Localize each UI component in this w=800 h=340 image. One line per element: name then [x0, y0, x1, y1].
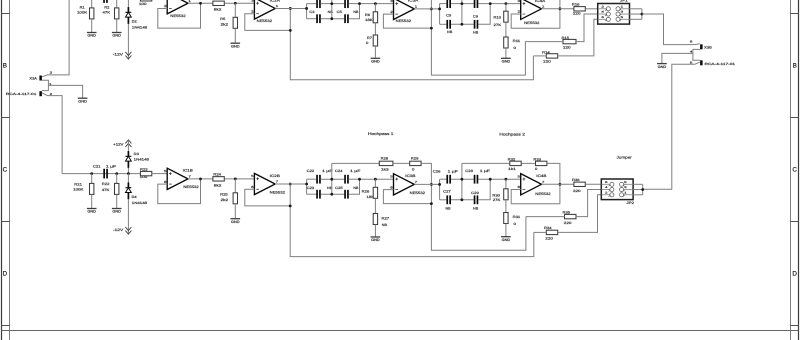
wire X3B pin4 to GND [662, 53, 693, 63]
svg-text:18K: 18K [365, 18, 374, 22]
svg-text:GND: GND [371, 60, 380, 64]
wire R31 to GND [505, 224, 507, 237]
svg-text:18K: 18K [367, 195, 376, 199]
svg-text:Jumper: Jumper [617, 155, 633, 159]
node HP2B mid bot [461, 198, 464, 201]
wire R14 to JP1 row3 [558, 19, 598, 56]
wire HP2B fb rail a [462, 162, 510, 164]
wire IC2A output [275, 7, 306, 9]
wire HP2A top rail b [451, 3, 474, 5]
wire R10 top lead [505, 4, 507, 12]
resistor R32 [510, 161, 521, 165]
ground input GND [78, 98, 88, 103]
svg-text:R27: R27 [382, 216, 390, 220]
wire HP2A mid stub [461, 0, 463, 24]
svg-text:1N4148: 1N4148 [134, 157, 150, 161]
wire R7 to GND [374, 46, 376, 58]
supply -12V A [125, 52, 131, 59]
resistor R6 [373, 12, 377, 23]
wire IC4B output [542, 183, 574, 185]
svg-text:R1: R1 [80, 5, 85, 9]
connector pin X3A-lower [39, 91, 42, 96]
wire HP1A left vertical [306, 4, 308, 19]
node IC2A out [289, 7, 292, 10]
svg-text:NB: NB [473, 206, 479, 210]
svg-text:1N4148: 1N4148 [132, 201, 148, 205]
svg-text:IC4B: IC4B [536, 174, 547, 178]
svg-text:R24: R24 [213, 173, 221, 177]
node HP2B right [489, 178, 492, 181]
resistor R31 [504, 213, 508, 224]
svg-text:27K: 27K [493, 198, 502, 202]
svg-text:GND: GND [658, 65, 667, 69]
svg-text:GND: GND [371, 238, 380, 242]
svg-text:47K: 47K [102, 188, 111, 192]
node IC1B out [199, 177, 202, 180]
wire D2 to -12V [127, 24, 129, 59]
resistor R1 [90, 8, 94, 19]
connector pin X3B-lower [700, 60, 703, 65]
resistor R30 [504, 189, 508, 200]
svg-text:NB: NB [473, 31, 479, 35]
op-amp IC3B [394, 174, 415, 195]
capacitor C9 (A bot1) [446, 20, 451, 29]
frame bottom border [2, 330, 799, 332]
wire JP2 output tie [642, 184, 644, 195]
wire R16 to JP1 [585, 8, 597, 10]
svg-text:R14: R14 [542, 51, 550, 55]
svg-text:X3A: X3A [29, 76, 38, 80]
wire R25 to GND [234, 204, 236, 218]
svg-text:100K: 100K [77, 10, 88, 14]
capacitor C8 (A top1) [446, 0, 451, 8]
node R22 node [115, 172, 118, 175]
ground R5 GND [231, 43, 241, 48]
resistor R34 [546, 230, 557, 234]
wire HP2B top rail c [478, 178, 520, 180]
svg-text:C27: C27 [443, 190, 451, 194]
resistor R28 [379, 161, 393, 165]
svg-text:GND: GND [112, 34, 121, 38]
svg-text:NE5532: NE5532 [410, 191, 425, 195]
wire HP1B top rail c [349, 178, 394, 180]
svg-text:NE5532: NE5532 [183, 185, 198, 189]
wire R21 to GND [91, 194, 93, 208]
wire R36 to JP2 [585, 183, 601, 185]
wire IC3A output [414, 8, 439, 10]
connector pin X3B-upper [700, 44, 703, 49]
wire X3A pin2 to top channel input riser [42, 0, 69, 77]
frame right inner border [790, 0, 792, 340]
wire D3 to main [127, 168, 129, 174]
svg-text:R36: R36 [572, 178, 580, 182]
node IC2A fb corner [289, 29, 292, 32]
svg-text:R6: R6 [365, 13, 370, 17]
node R10 node [505, 2, 508, 5]
node HP1A right [358, 2, 361, 5]
capacitor C29 [474, 195, 479, 204]
svg-text:100K: 100K [73, 188, 84, 192]
node HP1B mid top [330, 178, 333, 181]
wire R23 to IC1B [152, 173, 167, 175]
svg-text:C: C [3, 167, 8, 174]
svg-text:GND: GND [112, 210, 121, 214]
resistor R26 [373, 187, 377, 198]
frame row tick left [2, 221, 10, 223]
wire JP1 right stubs r3 [630, 18, 642, 20]
diode D3 [126, 151, 132, 168]
svg-text:-12V: -12V [113, 228, 124, 232]
ground R25 GND [231, 219, 241, 224]
wire R2 to GND [116, 19, 118, 32]
node R4/R5 node [234, 2, 237, 5]
ground R2 GND [112, 33, 122, 38]
wire R27 to GND [374, 225, 376, 237]
op-amp IC1B [167, 168, 188, 189]
capacitor C3 (A bot1) [316, 14, 321, 23]
svg-text:C23: C23 [307, 186, 315, 190]
wire IC3A feedback [383, 14, 431, 28]
capacitor C11 (A bot2) [474, 20, 479, 29]
wire JP2 right stubs r1 [633, 183, 643, 185]
wire JP1 right stubs r1 [630, 8, 642, 10]
wire JP2 right stubs r2 [633, 189, 643, 191]
wire IC3B output [414, 183, 439, 185]
capacitor C27 [446, 195, 451, 204]
svg-text:100: 100 [139, 2, 147, 6]
svg-text:NB: NB [447, 30, 453, 34]
node HP2A entry [438, 7, 441, 10]
svg-text:IC4A: IC4A [535, 0, 546, 3]
svg-text:GND: GND [502, 238, 511, 242]
wire IC2A out vertical / tap [290, 8, 533, 79]
svg-text:8k2: 8k2 [214, 183, 222, 187]
svg-text:220: 220 [563, 46, 571, 50]
ground X3B GND [657, 64, 667, 69]
svg-text:C9: C9 [446, 14, 451, 18]
wire R11 to GND [505, 48, 507, 58]
svg-text:D: D [3, 271, 8, 278]
wire HP2B mid riser [461, 163, 463, 199]
svg-text:R7: R7 [367, 36, 372, 40]
capacitor C28 [474, 175, 479, 184]
svg-text:R21: R21 [74, 183, 82, 187]
wire R2 top lead [116, 0, 118, 8]
frame row tick right [791, 13, 799, 15]
wire HP1A top rail b [321, 3, 344, 5]
wire R26 top lead [374, 179, 376, 187]
node IC4A out [559, 7, 562, 10]
svg-text:0: 0 [412, 168, 415, 172]
svg-text:R5: R5 [220, 17, 225, 21]
resistor R21 [90, 183, 94, 194]
wire R5 to GND [234, 28, 236, 42]
svg-text:NB: NB [446, 207, 452, 211]
wire IC3A fb/tap vertical [431, 0, 525, 75]
wire HP1B bottom rail a [307, 193, 317, 195]
wire X3B pin5 from JP2 [643, 62, 700, 189]
frame left outer border [1, 0, 3, 340]
wire IC1B output [188, 178, 213, 180]
svg-text:IC1B: IC1B [183, 168, 194, 172]
svg-text:Hochpass 1: Hochpass 1 [368, 132, 394, 136]
wire HP2B top rail b [451, 178, 474, 180]
wire X3B shield bracket [693, 49, 700, 60]
wire HP1A top rail a [307, 3, 317, 5]
svg-text:27K: 27K [494, 23, 503, 27]
wire D2 top lead [127, 0, 129, 7]
wire HP1A bottom rail a [307, 18, 317, 20]
wire HP1A bottom rail c [349, 4, 360, 19]
svg-text:C26: C26 [433, 170, 441, 174]
wire HP1B left vertical [306, 179, 308, 194]
node HP1A entry [305, 7, 308, 10]
ground R1 GND [87, 33, 97, 38]
ground R22 GND [112, 209, 122, 214]
svg-text:IC3A: IC3A [408, 0, 419, 3]
svg-text:GND: GND [87, 210, 96, 214]
svg-text:C21: C21 [93, 164, 101, 168]
jumper JP2 [601, 179, 633, 200]
svg-text:C9: C9 [473, 14, 478, 18]
svg-text:IC3B: IC3B [405, 174, 416, 178]
svg-text:0: 0 [366, 41, 369, 45]
node HP1A mid bot [330, 17, 333, 20]
node diode node B [127, 172, 130, 175]
svg-text:NE5532: NE5532 [257, 19, 272, 23]
wire HP1B fb rail a [332, 162, 380, 164]
svg-text:NE5532: NE5532 [396, 19, 411, 23]
frame row tick right [791, 325, 799, 327]
wire IC4B feedback [511, 184, 560, 204]
svg-text:0: 0 [514, 46, 517, 50]
svg-text:NB: NB [353, 10, 359, 14]
svg-text:1 µF: 1 µF [106, 164, 116, 168]
svg-text:IC2A: IC2A [270, 0, 281, 3]
wire IC4A output [542, 8, 574, 10]
svg-text:NB: NB [353, 186, 359, 190]
resistor R11 [504, 37, 508, 48]
ground R21 GND [87, 209, 97, 214]
svg-text:R23: R23 [140, 167, 148, 171]
wire JP1 to X3B pin6 [642, 14, 700, 45]
svg-text:R11: R11 [513, 39, 521, 43]
svg-text:2k2: 2k2 [221, 198, 229, 202]
wire R1 top lead [91, 0, 93, 8]
node R26 node [374, 178, 377, 181]
wire R1 to GND [91, 19, 93, 32]
resistor R10 [504, 11, 508, 22]
jumper JP1 [598, 4, 630, 25]
capacitor C26 [446, 175, 451, 184]
wire R6 top lead [374, 4, 376, 12]
wire IC1B feedback [158, 179, 201, 204]
svg-text:D2: D2 [132, 19, 137, 23]
svg-text:X3B: X3B [704, 45, 713, 49]
resistor R22 [115, 183, 119, 194]
svg-text:1k1: 1k1 [508, 167, 516, 171]
node JP1 out [641, 13, 644, 16]
wire R35 left lead [526, 216, 565, 218]
svg-text:1 µF: 1 µF [480, 169, 490, 173]
svg-text:R26: R26 [362, 189, 370, 193]
svg-text:R33: R33 [533, 158, 541, 162]
wire HP1B top rail b [321, 178, 344, 180]
ground R11 GND [501, 58, 511, 63]
svg-text:GND: GND [78, 99, 87, 103]
node IC4B out [559, 183, 562, 186]
resistor R27 [373, 214, 377, 225]
svg-text:+12V: +12V [113, 142, 124, 146]
op-amp IC3A [394, 0, 415, 19]
svg-text:RCA-4-117-01: RCA-4-117-01 [705, 62, 736, 66]
svg-text:220: 220 [573, 12, 581, 16]
op-amp IC4B [521, 174, 542, 195]
wire HP2B fb rail b [521, 162, 535, 164]
svg-text:R22: R22 [102, 182, 110, 186]
frame row tick left [2, 325, 10, 327]
wire R10 to R11 [505, 22, 507, 37]
svg-text:C: C [792, 167, 797, 174]
frame left inner border [9, 0, 11, 340]
wire HP2B top rail a [440, 178, 447, 180]
wire HP2B left vertical [439, 179, 441, 200]
wire IC2B output [275, 183, 306, 185]
svg-text:R15: R15 [562, 36, 570, 40]
wire R30 top lead [505, 179, 507, 189]
wire HP1A bottom rail b [321, 18, 344, 20]
wire R26 to R27 [374, 198, 376, 213]
svg-text:Hochpass 2: Hochpass 2 [499, 133, 525, 137]
svg-text:C29: C29 [471, 191, 479, 195]
resistor R35 [565, 214, 577, 218]
wire HP2A left vertical [439, 4, 441, 25]
svg-text:8k2: 8k2 [214, 8, 222, 12]
resistor R14 [546, 54, 557, 58]
wire +12V to D3 [127, 140, 129, 151]
svg-text:C28: C28 [465, 169, 473, 173]
svg-text:220: 220 [573, 189, 581, 193]
wire R14 left lead [533, 55, 546, 57]
resistor R3 (clipped) [140, 0, 151, 1]
wire R15 left lead [525, 41, 563, 43]
wire R21 top lead [91, 174, 93, 184]
svg-text:220: 220 [543, 60, 551, 64]
wire HP1B bottom rail c [349, 179, 360, 194]
wire HP2A top rail c [478, 3, 520, 5]
capacitor C5 (A bot2) [344, 14, 349, 23]
svg-text:R10: R10 [494, 16, 502, 20]
node IC3B out node [430, 183, 433, 186]
diode D2 [126, 7, 132, 24]
svg-text:R16: R16 [572, 3, 580, 7]
svg-text:1N4148: 1N4148 [132, 26, 148, 30]
wire HP1A mid stub [331, 0, 333, 19]
frame row tick left [2, 13, 10, 15]
svg-text:220: 220 [564, 221, 572, 225]
wire IC2B feedback [245, 189, 290, 206]
wire R4 to IC2A [224, 2, 254, 4]
node IC1A out [199, 2, 202, 5]
wire B main line [62, 173, 140, 175]
resistor R2 [115, 8, 119, 19]
wire HP2A bottom rail b [451, 23, 474, 25]
svg-text:JP2: JP2 [626, 201, 634, 205]
wire R34 to JP2 row3 [558, 195, 602, 233]
node R24/R25 node [234, 177, 237, 180]
wire IC2A feedback [245, 14, 290, 31]
node R21 node [90, 172, 93, 175]
svg-text:NE5532: NE5532 [270, 191, 285, 195]
ground R7 GND [371, 58, 381, 63]
node HP2A mid bot [461, 23, 464, 26]
ground R31 GND [501, 237, 511, 242]
resistor R25 [233, 193, 237, 204]
wire R35 to JP2 row2 [576, 190, 601, 217]
resistor R4 [213, 1, 224, 5]
wire R34 left lead [534, 231, 547, 233]
node HP1B right [358, 178, 361, 181]
wire R30 to R31 [505, 200, 507, 213]
wire HP2B bottom rail b [451, 199, 474, 201]
op-amp IC4A [521, 0, 542, 19]
svg-text:NB: NB [328, 10, 334, 14]
svg-text:C5: C5 [337, 10, 342, 14]
svg-text:NE5532: NE5532 [535, 192, 550, 196]
svg-text:GND: GND [231, 220, 240, 224]
wire HP2B bottom rail a [440, 199, 447, 201]
wire HP2A top rail a [440, 3, 447, 5]
op-amp IC1A [167, 0, 188, 14]
resistor R24 [213, 177, 224, 181]
svg-text:100: 100 [140, 175, 148, 179]
wire IC3B feedback [383, 190, 431, 204]
capacitor C24 [344, 175, 349, 184]
node HP1B mid bot [330, 193, 333, 196]
wire D4 to -12V [127, 199, 129, 234]
wire IC1A feedback [158, 3, 201, 28]
svg-text:R2: R2 [104, 6, 109, 10]
frame right outer border [798, 0, 800, 340]
diode D4 [126, 183, 132, 200]
svg-text:0: 0 [535, 167, 538, 171]
supply -12V B [125, 227, 131, 234]
node HP2B entry [438, 183, 441, 186]
resistor R23 [140, 171, 151, 175]
svg-text:1k3: 1k3 [381, 168, 389, 172]
svg-text:47K: 47K [103, 11, 112, 15]
svg-text:NE5532: NE5532 [524, 21, 539, 25]
resistor R29 [410, 161, 421, 165]
capacitor C23 [316, 190, 321, 199]
wire HP2A bottom rail a [440, 23, 447, 25]
svg-text:1 µF: 1 µF [448, 170, 458, 174]
svg-text:GND: GND [231, 44, 240, 48]
wire HP2A bottom rail c [478, 4, 490, 25]
node IC3A out node [430, 7, 433, 10]
svg-text:C22: C22 [307, 169, 315, 173]
svg-text:2k2: 2k2 [221, 23, 229, 27]
svg-text:R28: R28 [381, 156, 389, 160]
capacitor C25 [344, 190, 349, 199]
frame row tick right [791, 221, 799, 223]
wire X3A pin2b to bottom channel [42, 93, 62, 174]
wire HP2B fb rail c [547, 163, 560, 184]
ground R27 GND [371, 237, 381, 242]
resistor R33 [536, 161, 547, 165]
capacitor C2 (A top1) [316, 0, 321, 8]
wire R15 to JP1 row2 [576, 14, 598, 42]
